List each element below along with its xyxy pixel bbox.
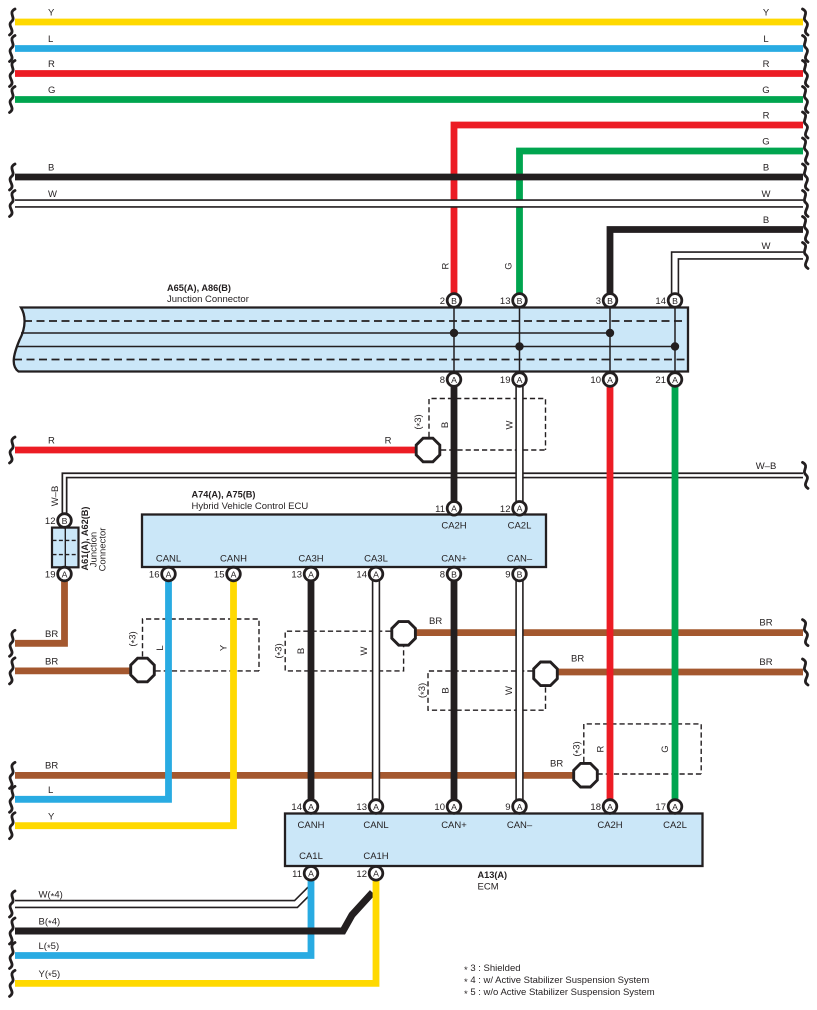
svg-text:A: A (451, 802, 457, 812)
svg-text:18: 18 (590, 802, 601, 813)
svg-text:CA2H: CA2H (597, 820, 622, 831)
wire break left R (10, 61, 16, 87)
wire G drop to A65 pin13 (520, 151, 804, 300)
svg-text:A: A (517, 504, 523, 514)
wire break right B2 (803, 217, 809, 243)
wire break left B (10, 164, 16, 190)
pin 9(A) U3 (505, 800, 526, 814)
svg-text:15: 15 (214, 570, 225, 581)
wire W top (white) (15, 199, 803, 207)
svg-text:W: W (505, 420, 516, 429)
svg-text:21: 21 (655, 375, 666, 386)
svg-text:Connector: Connector (98, 528, 109, 572)
junction dot pin13-19 (515, 342, 523, 350)
wire break left Y*5 (10, 970, 16, 996)
svg-text:W: W (762, 189, 771, 200)
wire Y(*5) ECM pin12 to left (15, 873, 376, 983)
svg-text:CA1L: CA1L (299, 851, 323, 862)
wire B U2 pin13 to ECM pin14 (308, 574, 315, 807)
pin 15(A) U2 (214, 567, 240, 581)
svg-text:A: A (62, 569, 68, 579)
pin 8(B) U2 (440, 567, 461, 581)
svg-text:CANH: CANH (220, 554, 247, 565)
svg-text:BR: BR (45, 657, 58, 668)
wire break left G (10, 87, 16, 113)
svg-text:19: 19 (45, 570, 56, 581)
svg-text:ECM: ECM (478, 882, 499, 893)
svg-text:CA3H: CA3H (298, 554, 323, 565)
svg-text:G: G (48, 85, 55, 96)
svg-text:17: 17 (655, 802, 666, 813)
A65 internal dashed bus lines (14, 321, 686, 360)
pin 14(B) A65 (655, 294, 681, 308)
wire W A65 pin19 to U2 pin12 (white) (515, 380, 523, 509)
wire break left R shield (10, 437, 16, 463)
shield box S2 dashed (*3) (143, 619, 260, 671)
A65 internal busbar upper (21, 332, 610, 334)
svg-text:A: A (517, 802, 523, 812)
svg-text:CANL: CANL (363, 820, 388, 831)
svg-text:R: R (48, 436, 55, 447)
svg-text:L: L (155, 645, 166, 650)
wire B U2 pin8 to ECM pin10 (451, 574, 458, 807)
svg-text:Y: Y (48, 8, 55, 19)
wire B(*4) to ECM pin12 (15, 893, 373, 932)
svg-text:BR: BR (571, 654, 584, 665)
pin 13(A) U3 (356, 800, 382, 814)
shield box S3 dashed (*3) (285, 631, 403, 671)
svg-text:A: A (373, 802, 379, 812)
wire W U2 pin9 to ECM pin9 (white) (515, 574, 523, 807)
svg-text:R: R (440, 262, 451, 269)
svg-text:A: A (308, 569, 314, 579)
wire G A65 pin21 to ECM pin17 (672, 380, 679, 807)
svg-text:B: B (451, 296, 457, 306)
wire W(*4) to ECM pin11 (white) (15, 890, 311, 905)
svg-text:CA3L: CA3L (364, 554, 388, 565)
shield ground symbol S1 (416, 438, 440, 462)
svg-text:L: L (763, 34, 768, 45)
svg-text:Junction Connector: Junction Connector (167, 294, 249, 305)
svg-text:W: W (359, 646, 370, 655)
A65 internal pin-through wires (454, 308, 675, 371)
svg-text:CANL: CANL (156, 554, 181, 565)
svg-text:W: W (48, 189, 57, 200)
svg-text:B: B (763, 163, 769, 174)
svg-text:R: R (763, 111, 770, 122)
svg-text:B: B (672, 296, 678, 306)
svg-text:B: B (441, 687, 452, 693)
svg-text:A74(A), A75(B): A74(A), A75(B) (192, 490, 256, 500)
pin 14(A) U3 (291, 800, 317, 814)
svg-text:B: B (517, 569, 523, 579)
svg-text:L: L (48, 34, 53, 45)
svg-text:G: G (762, 85, 769, 96)
pin 8(A) A65 (440, 373, 461, 387)
svg-text:8: 8 (440, 375, 445, 386)
svg-text:G: G (504, 262, 515, 269)
svg-text:14: 14 (655, 296, 666, 307)
svg-text:B: B (296, 648, 307, 654)
svg-text:A13(A): A13(A) (478, 870, 508, 880)
svg-text:A: A (607, 375, 613, 385)
wire break right L (803, 36, 809, 62)
pin 12(A) U3 (356, 867, 382, 881)
svg-text:R: R (596, 745, 607, 752)
wire break left Y mid (10, 813, 16, 839)
svg-text:R: R (48, 59, 55, 70)
pin 13(B) A65 (500, 294, 526, 308)
svg-text:(*3): (*3) (413, 414, 426, 429)
svg-text:11: 11 (292, 869, 302, 880)
svg-text:R: R (763, 59, 770, 70)
pin 10(A) U3 (434, 800, 460, 814)
svg-text:A: A (672, 375, 678, 385)
svg-text:Y: Y (763, 8, 770, 19)
wire BR from S3 to right (404, 629, 803, 636)
pin 13(A) U2 (291, 567, 317, 581)
svg-text:B: B (440, 422, 451, 428)
svg-text:13: 13 (356, 802, 367, 813)
wire break right R2 (803, 112, 809, 138)
svg-text:G: G (762, 137, 769, 148)
wire R drop to A65 pin2 (454, 125, 803, 300)
shield box S5 dashed (*3) (584, 724, 701, 774)
svg-text:BR: BR (429, 616, 442, 627)
svg-text:(*3): (*3) (417, 683, 430, 698)
shield ground symbol S5 (574, 763, 598, 787)
svg-text:A: A (672, 802, 678, 812)
svg-text:(*3): (*3) (128, 631, 141, 646)
pin 2(B) A65 (440, 294, 461, 308)
junction dot pin3-10 (606, 329, 614, 337)
wire B drop to A65 pin3 (610, 230, 803, 301)
svg-text:A: A (517, 375, 523, 385)
A61 internal grid (64, 528, 66, 567)
svg-text:19: 19 (500, 375, 511, 386)
wire R top (15, 70, 803, 77)
pin 18(A) U3 (590, 800, 616, 814)
svg-text:A: A (451, 504, 457, 514)
svg-text:Hybrid Vehicle Control ECU: Hybrid Vehicle Control ECU (192, 501, 309, 512)
pin 12(B) A61 (45, 514, 71, 528)
svg-text:* 4 : w/ Active Stabilizer Sus: * 4 : w/ Active Stabilizer Suspension Sy… (464, 975, 649, 988)
svg-text:10: 10 (434, 802, 445, 813)
shield box S1 dashed (*3) (429, 399, 546, 451)
wire R A65 pin10 to ECM pin18 (607, 380, 614, 807)
svg-text:14: 14 (291, 802, 302, 813)
svg-text:Y: Y (48, 812, 55, 823)
pin 19(A) A65 (500, 373, 526, 387)
svg-text:A: A (607, 802, 613, 812)
svg-text:CANH: CANH (298, 820, 325, 831)
svg-text:CAN+: CAN+ (441, 820, 467, 831)
junction dot pin2-8 (450, 329, 458, 337)
svg-text:B: B (607, 296, 613, 306)
svg-text:W: W (504, 686, 515, 695)
svg-text:A: A (231, 569, 237, 579)
shield ground symbol S4 (534, 662, 558, 686)
svg-text:BR: BR (45, 761, 58, 772)
svg-text:11: 11 (435, 504, 445, 515)
svg-text:14: 14 (356, 570, 367, 581)
wire G top (15, 96, 803, 103)
shield ground symbol S3 (392, 622, 416, 646)
wire break left L*5 (10, 943, 16, 969)
svg-text:(*3): (*3) (572, 741, 585, 756)
svg-text:L(*5): L(*5) (39, 941, 60, 954)
wire break left BR2 (10, 658, 16, 684)
svg-text:G: G (660, 745, 671, 752)
wire Y U2 pin15 to left (15, 574, 234, 826)
wire BR from A61 pin19 to left (15, 574, 65, 643)
svg-text:B: B (62, 516, 68, 526)
pin 17(A) U3 (655, 800, 681, 814)
wire BR to S5 (15, 772, 578, 779)
svg-text:A: A (373, 869, 379, 879)
pin 9(B) U2 (505, 567, 526, 581)
wire break left BRc (10, 762, 16, 788)
wire Y top (15, 19, 803, 26)
wire break right BRa (803, 620, 809, 646)
pin 14(A) U2 (356, 567, 382, 581)
svg-text:13: 13 (500, 296, 511, 307)
svg-text:* 3 : Shielded: * 3 : Shielded (464, 963, 521, 976)
svg-text:12: 12 (500, 504, 511, 515)
svg-text:B(*4): B(*4) (39, 917, 61, 930)
wire break left L mid (10, 786, 16, 812)
ECU box U2: A74(A), A75(B) Hybrid Vehicle Control ECU (142, 515, 546, 568)
svg-text:10: 10 (590, 375, 601, 386)
svg-text:CAN–: CAN– (507, 554, 533, 565)
svg-text:BR: BR (759, 657, 772, 668)
wire break right W-B (803, 462, 809, 488)
svg-text:BR: BR (45, 629, 58, 640)
wire BR from S4 to right (546, 669, 803, 676)
svg-text:W: W (762, 241, 771, 252)
wire W U2 pin14 to ECM pin13 (white) (372, 574, 380, 807)
wire break right G (803, 87, 809, 113)
ECU box U3: A13(A) ECM (285, 814, 703, 867)
svg-text:A: A (308, 802, 314, 812)
svg-text:9: 9 (505, 802, 510, 813)
shield ground symbol S2 (131, 658, 155, 682)
svg-text:BR: BR (759, 618, 772, 629)
junction connector A65(A), A86(B) body (14, 308, 688, 372)
pin 3(B) A65 (596, 294, 617, 308)
wire L U2 pin16 to left (15, 574, 169, 799)
wire break right W (803, 191, 809, 217)
svg-text:W–B: W–B (756, 461, 777, 472)
svg-text:R: R (385, 436, 392, 447)
junction connector A61(A), A62(B) body (52, 528, 79, 568)
svg-text:A: A (373, 569, 379, 579)
pin 19(A) A61 (45, 567, 71, 581)
wire R shield lead to S1 (15, 447, 420, 454)
svg-text:B: B (517, 296, 523, 306)
svg-text:8: 8 (440, 570, 445, 581)
svg-text:2: 2 (440, 296, 445, 307)
wire L(*5) ECM pin11 to left (15, 873, 311, 955)
shield box S4 dashed (*3) (428, 671, 546, 710)
wire break left W (10, 191, 16, 217)
svg-text:CA1H: CA1H (363, 851, 388, 862)
svg-text:(*3): (*3) (274, 643, 287, 658)
wire W drop to A65 pin14 (white) (675, 256, 803, 301)
pin 12(A) U2 (500, 502, 526, 516)
wire B top (15, 174, 803, 181)
wire break right BRb (803, 659, 809, 685)
svg-text:A65(A), A86(B): A65(A), A86(B) (167, 283, 231, 293)
wire L top (15, 45, 803, 52)
svg-text:* 5 : w/o Active Stabilizer Su: * 5 : w/o Active Stabilizer Suspension S… (464, 987, 655, 1000)
wire break left L (10, 36, 16, 62)
svg-text:B: B (48, 163, 54, 174)
A65 internal busbar lower (16, 346, 675, 348)
pin 11(A) U2 (435, 502, 461, 516)
junction dot pin14-21 (671, 342, 679, 350)
pin 11(A) U3 (292, 867, 318, 881)
svg-text:12: 12 (356, 869, 367, 880)
svg-text:CA2L: CA2L (508, 521, 532, 532)
svg-text:Y(*5): Y(*5) (39, 969, 61, 982)
svg-text:W(*4): W(*4) (39, 890, 63, 903)
svg-text:9: 9 (505, 570, 510, 581)
svg-text:Y: Y (219, 644, 230, 651)
svg-text:B: B (451, 569, 457, 579)
svg-text:CA2H: CA2H (441, 521, 466, 532)
pin 21(A) A65 (655, 373, 681, 387)
svg-text:W–B: W–B (50, 486, 61, 507)
svg-text:A: A (308, 869, 314, 879)
svg-text:A: A (166, 569, 172, 579)
wire break left Y (10, 9, 16, 35)
svg-text:CAN+: CAN+ (441, 554, 467, 565)
wire break left BR1 (10, 630, 16, 656)
wire B A65 pin8 to U2 pin11 (451, 380, 458, 509)
svg-text:3: 3 (596, 296, 601, 307)
svg-text:A: A (451, 375, 457, 385)
wire break left W*4 (10, 891, 16, 917)
pin 10(A) A65 (590, 373, 616, 387)
pin 16(A) U2 (149, 567, 175, 581)
wire W-B from A61 pin12 to right (white) (65, 475, 804, 520)
wire break right G2 (803, 138, 809, 164)
svg-text:CA2L: CA2L (663, 820, 687, 831)
svg-text:B: B (763, 215, 769, 226)
wire break right R (803, 61, 809, 87)
svg-text:CAN–: CAN– (507, 820, 533, 831)
wire break right W2 (803, 243, 809, 269)
wire break right B (803, 164, 809, 190)
wire BR to S2 (15, 668, 132, 675)
svg-text:L: L (48, 785, 53, 796)
wire break right Y (803, 9, 809, 35)
svg-text:BR: BR (550, 759, 563, 770)
wire break left B*4 (10, 918, 16, 944)
svg-text:13: 13 (291, 570, 302, 581)
svg-text:16: 16 (149, 570, 160, 581)
svg-text:12: 12 (45, 516, 56, 527)
